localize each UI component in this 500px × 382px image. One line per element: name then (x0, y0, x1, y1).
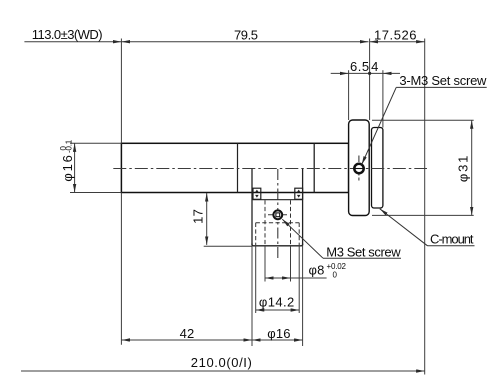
tube body (phi16 barrel) (121, 143, 348, 192)
svg-text:φ31: φ31 (455, 154, 470, 182)
block vertical centerline (277, 169, 279, 261)
extension block left down (251, 246, 253, 346)
tube joint line 1 (237, 143, 239, 192)
dimension phi14.2 (256, 309, 300, 311)
block screw crosshair horizontal (268, 214, 288, 216)
dimension 113.0±3(WD) (24, 41, 121, 43)
dimension phi8 (265, 277, 291, 279)
extension phi14.2 left down (255, 246, 257, 313)
hidden counterbore step (256, 222, 300, 224)
hidden line phi14.2 right (298, 223, 300, 245)
dimension 6.5 / 4 (331, 72, 349, 74)
svg-text:79.5: 79.5 (234, 27, 258, 42)
clamp block left edge (251, 169, 253, 246)
svg-text:0: 0 (333, 271, 338, 280)
extension line at flange face (369, 39, 371, 121)
dimension phi16 bottom (252, 339, 303, 341)
set screw 3-M3 (flange) (354, 164, 363, 173)
clamp screw box left (253, 188, 261, 199)
svg-text:17.526: 17.526 (374, 27, 417, 42)
svg-text:C-mount: C-mount (430, 232, 474, 247)
dimension 17 (206, 193, 208, 245)
phi16 left extension top (70, 142, 121, 144)
extension line at tube front (120, 39, 122, 144)
svg-text:-0.1: -0.1 (64, 139, 73, 153)
dimension 210.0(O/I) (21, 370, 425, 372)
extension phi8 right down (290, 245, 292, 282)
svg-text:+0.02: +0.02 (327, 262, 347, 271)
svg-text:M3 Set screw: M3 Set screw (326, 245, 401, 260)
svg-text:42: 42 (180, 326, 195, 341)
clamp block right edge (302, 169, 304, 246)
dimension phi31 (471, 120, 473, 215)
tube joint line 2 (313, 143, 315, 192)
set screw M3 (block) (273, 210, 282, 219)
flange (phi31) (349, 120, 370, 216)
extension line c-ring right (382, 70, 384, 127)
extension phi8 left down (264, 245, 266, 282)
hidden line phi8 right (290, 200, 292, 245)
hidden line phi14.2 left (255, 223, 257, 245)
svg-text:φ16: φ16 (60, 153, 75, 181)
svg-text:4: 4 (371, 59, 378, 74)
clamp screw box right (295, 188, 303, 199)
C-mount ring (372, 128, 383, 209)
svg-text:113.0±3(WD): 113.0±3(WD) (32, 27, 102, 42)
extension tube front down (120, 193, 122, 345)
extension block right down (302, 246, 304, 346)
svg-text:3-M3 Set screw: 3-M3 Set screw (399, 73, 487, 88)
phi16 left extension bottom (70, 192, 121, 194)
svg-text:17: 17 (191, 209, 206, 224)
clamp block top face line (253, 199, 302, 201)
phi31 extension bottom (372, 214, 474, 216)
extension phi14.2 right down (298, 246, 300, 313)
svg-text:210.0(0/I): 210.0(0/I) (191, 355, 253, 370)
svg-text:φ16: φ16 (267, 326, 291, 341)
dimension 79.5 (121, 41, 368, 43)
svg-text:φ8: φ8 (309, 262, 325, 277)
dimension phi16 left (74, 143, 76, 192)
dimension 17.526 (370, 41, 425, 43)
extension line flange left (348, 70, 350, 120)
clamp block bottom edge (252, 244, 303, 246)
hidden line phi8 left (264, 200, 266, 245)
svg-text:φ14.2: φ14.2 (259, 295, 295, 310)
svg-text:6.5: 6.5 (350, 59, 370, 74)
dimension 42 (121, 339, 252, 341)
flange screw crosshair vertical (358, 156, 360, 182)
extension line image plane (424, 39, 426, 375)
phi31 extension top (372, 119, 474, 121)
main centerline (113, 168, 427, 170)
